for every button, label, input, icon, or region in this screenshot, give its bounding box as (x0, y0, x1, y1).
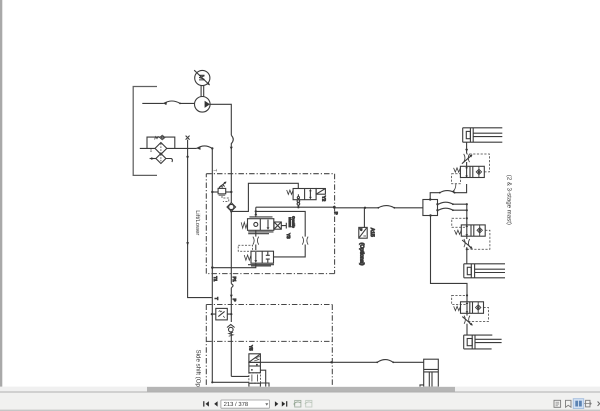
measuring couplings below Y2 (297, 200, 300, 203)
toolbar background (0, 392, 600, 411)
lower valve V2 (238, 245, 252, 251)
svg-text:Override: Override (292, 216, 296, 228)
inline relief box (216, 308, 228, 320)
relief pilot dashes (222, 196, 229, 201)
wire: tilt rod-side elbow (420, 385, 424, 387)
svg-text:Pd: Pd (149, 149, 153, 153)
FR1 spring (454, 168, 461, 172)
filter F1 upper diamond (155, 143, 167, 155)
btn last page (282, 401, 285, 406)
wire: return hump to T junction (197, 146, 213, 149)
svg-text:213 / 378: 213 / 378 (224, 401, 249, 408)
svg-text:P1: P1 (232, 277, 237, 283)
btn next view (305, 400, 312, 407)
FR3 spring (454, 306, 461, 310)
wire: P port to manifold (334, 207, 423, 209)
page combo (221, 400, 270, 408)
throttle (right) (302, 237, 308, 245)
FR1 pilot box (452, 174, 461, 184)
wire: manifold right ports to flow reg 2 (438, 204, 467, 210)
node T junction (211, 147, 213, 149)
svg-text:Lift/Lower: Lift/Lower (194, 210, 201, 235)
tank bracket (133, 87, 157, 176)
wire: suction hump (164, 101, 180, 103)
svg-text:P: P (334, 212, 339, 215)
strainer lower diamond (156, 154, 166, 164)
svg-text:M: M (197, 74, 206, 81)
FR1 pilot dashed loop (467, 154, 490, 172)
svg-text:(Optional): (Optional) (359, 243, 365, 266)
svg-text:Y5: Y5 (248, 345, 253, 351)
V2 spring (244, 255, 251, 260)
junction dot (186, 156, 188, 158)
wire: T line down into block (211, 148, 213, 273)
throttle (left) (255, 230, 257, 236)
wire: P elbow to Y5 (231, 375, 249, 377)
wire: manifold bottom to elbow (431, 216, 468, 303)
filter bypass rect (147, 137, 175, 148)
strainer drain hook (166, 159, 173, 163)
wire: P internal routing (231, 183, 298, 211)
svg-text:P: P (232, 299, 237, 302)
Y2 spring (287, 190, 293, 194)
cyl1 feed (466, 142, 468, 153)
FR3 pilot dashed loop (467, 308, 489, 322)
wire: P pass-through with hump (230, 211, 232, 322)
btn prev page (214, 401, 217, 406)
icon page with arrow (584, 400, 591, 407)
manual override MO (274, 222, 281, 229)
wire: relief right port (226, 191, 232, 193)
svg-text:Y2: Y2 (322, 196, 327, 202)
FR3 variable throttle below (466, 313, 468, 315)
FR2 variable throttle below (466, 236, 468, 239)
svg-text:T: T (213, 169, 218, 172)
btn previous view (293, 400, 301, 407)
wire: suction line to pump (142, 102, 194, 104)
wire: return line into tank (140, 147, 197, 149)
pressure switch A15 (363, 208, 365, 228)
relief valve RV1 (218, 188, 226, 193)
wire: P riser hump (231, 135, 233, 203)
wire: Y5 to tilt cylinder (260, 361, 423, 363)
icon bookmark (566, 400, 572, 407)
wire: T pass-through (211, 274, 214, 383)
wire: manifold top to flow reg 1 (430, 184, 466, 200)
svg-text:(2 & 3-stage mast): (2 & 3-stage mast) (505, 175, 512, 225)
variable throttle (464, 154, 470, 162)
flow arrow on drain line (186, 242, 189, 245)
motor-pump shaft (201, 86, 204, 97)
icon two-page highlighted (573, 399, 584, 409)
page left edge strip (0, 0, 2, 387)
breather plug x (186, 136, 190, 140)
wire: relief left port (212, 191, 218, 193)
Y2 solenoid box (316, 189, 325, 195)
flow arrow on T line (211, 267, 214, 270)
V1 spring (241, 222, 247, 228)
V1 plate lines (248, 232, 273, 234)
scrollbar thumb (147, 387, 455, 392)
overflow chevron (598, 402, 600, 406)
motor U1 circle (195, 70, 210, 85)
check valve CV2 on P (227, 324, 235, 327)
svg-text:T1: T1 (213, 276, 218, 282)
wire: into main valve (255, 211, 257, 217)
bypass check valve (155, 136, 159, 139)
main spool valve V1 (249, 216, 272, 218)
pump triangle (205, 101, 210, 108)
scrollbar track (0, 387, 600, 392)
FR2 spring (455, 230, 462, 234)
icon single page (554, 400, 561, 407)
motor arrow (variable) (194, 70, 209, 85)
check valve CV1 (227, 203, 236, 212)
right icons (554, 400, 571, 407)
flow arrow on P riser (230, 147, 233, 150)
FR2 pilot dashed loop (467, 230, 490, 249)
strainer left stub (150, 158, 156, 160)
svg-text:Manual: Manual (288, 217, 292, 227)
wire: P line to port (256, 207, 335, 211)
wire: box through line (212, 313, 232, 315)
return flow arrow (197, 147, 201, 150)
btn first page (203, 401, 204, 406)
wire: pump outlet to P riser (210, 104, 231, 135)
pump P1 circle (195, 97, 211, 113)
V2 plate lines (248, 265, 274, 266)
block border dash-dot (206, 174, 334, 274)
solenoid valve Y2 (293, 189, 316, 200)
wire: V2 return to T (212, 263, 256, 268)
wire: T elbow to Y5 (212, 381, 249, 383)
manifold junction block (423, 200, 438, 216)
Y5 right elbows (260, 370, 265, 387)
btn next page (275, 401, 278, 406)
FR1 body (460, 166, 484, 177)
wire: drain line from breather down (188, 140, 212, 298)
svg-text:A15: A15 (369, 228, 375, 237)
svg-text:Y3: Y3 (286, 233, 291, 239)
block border dash-dot (206, 305, 332, 388)
svg-text:T: T (214, 297, 219, 300)
